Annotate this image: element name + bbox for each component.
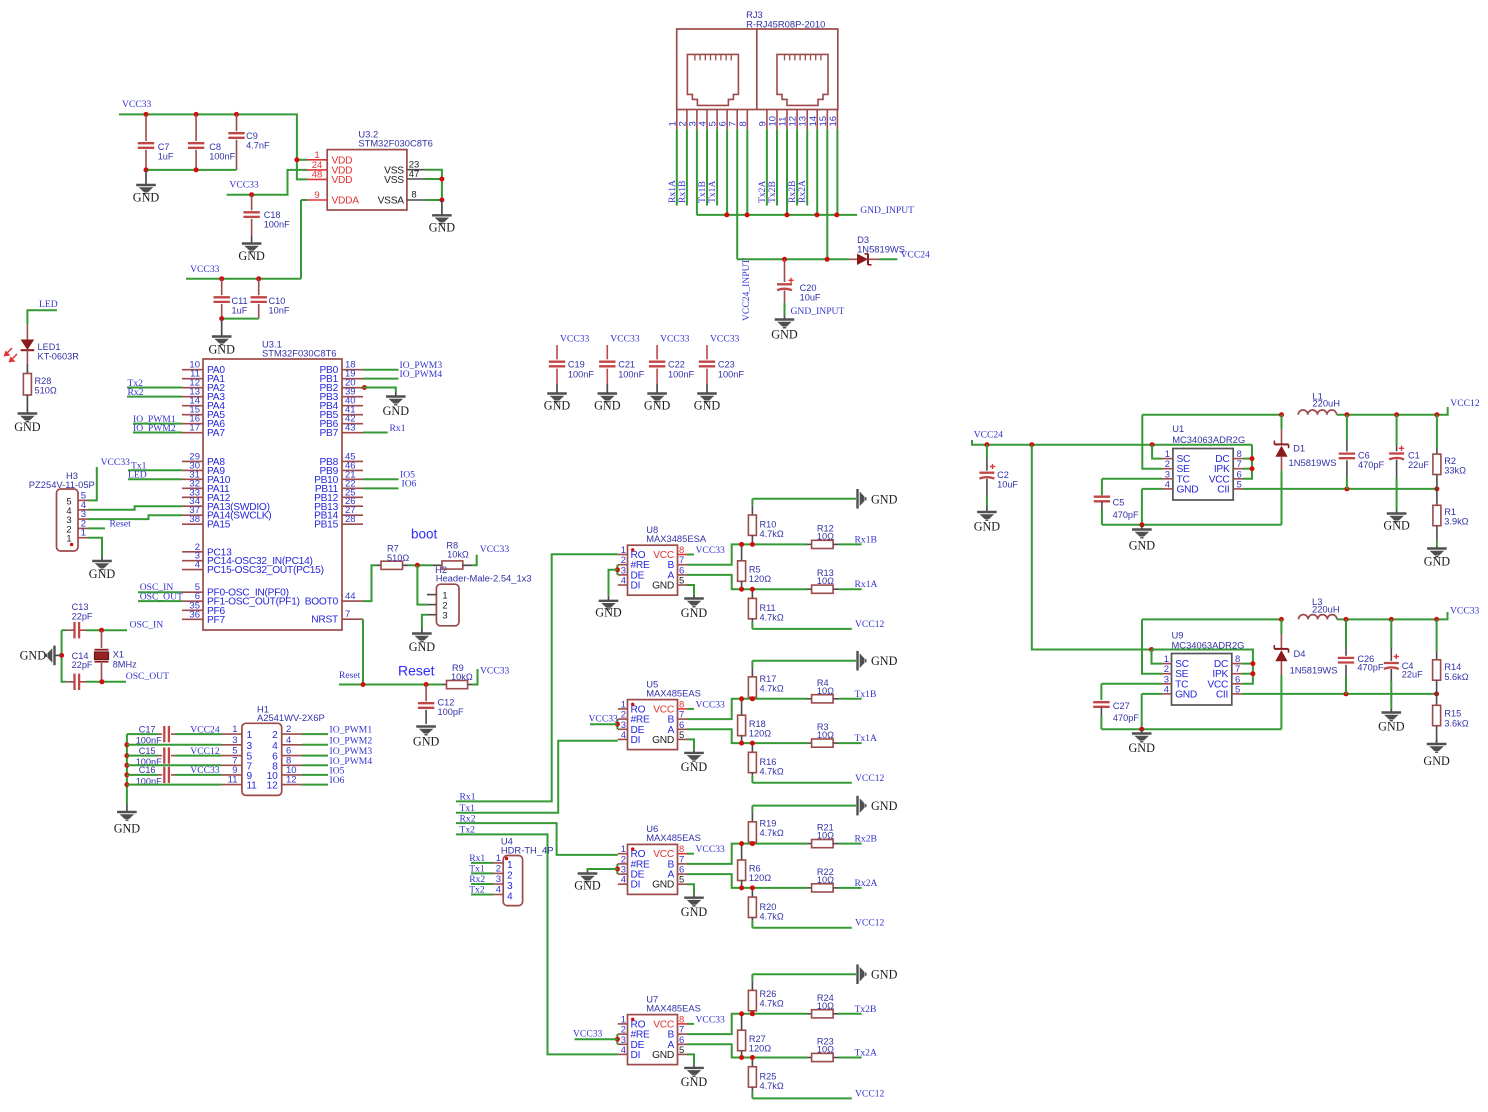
svg-text:4: 4 [496,885,501,896]
svg-text:GND: GND [652,880,674,891]
svg-text:4.7kΩ: 4.7kΩ [760,767,784,777]
svg-text:220uH: 220uH [1312,604,1340,615]
svg-text:VCC33: VCC33 [1450,606,1480,617]
svg-text:OSC_OUT: OSC_OUT [126,671,169,682]
svg-text:DI: DI [631,735,641,746]
svg-text:10Ω: 10Ω [817,686,834,696]
svg-text:VCC33: VCC33 [480,544,510,555]
svg-text:GND: GND [1128,741,1155,755]
svg-text:VSSA: VSSA [378,196,405,207]
svg-text:4.7kΩ: 4.7kΩ [760,683,784,693]
svg-text:IO6: IO6 [402,479,417,490]
svg-text:1N5819WS: 1N5819WS [857,243,905,254]
svg-text:12: 12 [267,781,278,792]
svg-text:3.6kΩ: 3.6kΩ [1444,718,1468,728]
svg-text:120Ω: 120Ω [749,728,771,738]
svg-text:VCC33: VCC33 [696,545,726,556]
svg-text:Tx1B: Tx1B [855,689,877,700]
svg-text:510Ω: 510Ω [35,386,57,396]
svg-text:HDR-TH_4P: HDR-TH_4P [501,845,554,856]
svg-text:R7: R7 [387,544,399,554]
svg-text:GND: GND [89,567,116,581]
svg-text:R14: R14 [1444,662,1461,672]
svg-text:KT-0603R: KT-0603R [38,352,80,362]
svg-text:Rx1B: Rx1B [855,534,877,545]
svg-text:R18: R18 [749,719,766,729]
svg-text:3: 3 [247,741,253,752]
svg-text:GND: GND [974,520,1001,534]
svg-text:VCC24: VCC24 [190,724,220,735]
svg-text:510Ω: 510Ω [387,553,409,563]
svg-text:GND: GND [771,328,798,342]
svg-text:GND: GND [544,399,571,413]
svg-text:3: 3 [442,610,447,621]
svg-text:GND: GND [652,1050,674,1061]
svg-text:11: 11 [247,781,258,792]
svg-text:10Ω: 10Ω [817,875,834,885]
svg-text:C17: C17 [139,724,156,734]
svg-text:VCC33: VCC33 [710,334,740,345]
svg-text:3.9kΩ: 3.9kΩ [1444,517,1468,527]
svg-text:GND: GND [681,760,708,774]
svg-text:10kΩ: 10kΩ [451,672,473,682]
svg-text:PA15: PA15 [207,520,231,531]
svg-text:C27: C27 [1113,701,1130,711]
svg-text:8MHz: 8MHz [113,660,137,670]
svg-text:VSS: VSS [384,175,404,186]
svg-text:GND: GND [409,640,436,654]
svg-text:GND: GND [595,606,622,620]
svg-text:9: 9 [314,190,319,201]
svg-text:Tx1A: Tx1A [855,733,877,744]
svg-text:D4: D4 [1294,648,1306,659]
svg-text:4: 4 [272,741,278,752]
svg-text:VCC12: VCC12 [855,773,885,784]
svg-text:38: 38 [189,514,200,525]
svg-text:X1: X1 [113,650,124,660]
svg-text:IO_PWM2: IO_PWM2 [330,735,373,746]
svg-text:28: 28 [345,514,356,525]
svg-text:C18: C18 [264,210,281,220]
svg-text:4: 4 [621,1045,626,1056]
svg-text:VCC33: VCC33 [573,1029,603,1040]
svg-text:R27: R27 [749,1034,766,1044]
svg-text:R1: R1 [1444,507,1456,517]
svg-text:Rx2: Rx2 [469,874,485,885]
svg-text:2: 2 [507,870,513,881]
svg-text:R26: R26 [760,989,777,999]
svg-text:Reset: Reset [110,519,132,530]
svg-text:4.7nF: 4.7nF [246,140,270,150]
svg-text:GND: GND [644,399,671,413]
svg-text:4: 4 [507,892,513,903]
svg-text:R-RJ45R08P-2010: R-RJ45R08P-2010 [746,19,825,30]
svg-text:8: 8 [738,121,749,126]
svg-text:120Ω: 120Ω [749,1043,771,1053]
svg-text:4.7kΩ: 4.7kΩ [760,828,784,838]
svg-text:22pF: 22pF [72,612,93,622]
svg-text:MAX3485ESA: MAX3485ESA [646,533,707,544]
svg-text:GND: GND [208,343,235,357]
svg-text:1uF: 1uF [158,152,174,162]
svg-text:4: 4 [1165,479,1170,490]
svg-text:4: 4 [621,576,626,587]
svg-text:C2: C2 [997,470,1009,480]
svg-text:10Ω: 10Ω [817,730,834,740]
svg-text:VCC33: VCC33 [190,765,220,776]
svg-text:VCC33: VCC33 [122,99,152,110]
svg-text:C1: C1 [1408,450,1420,460]
svg-text:VCC33: VCC33 [190,264,220,275]
svg-text:47: 47 [409,169,420,180]
svg-text:GND: GND [1423,754,1450,768]
svg-text:GND: GND [871,654,898,668]
svg-text:PF7: PF7 [207,615,226,626]
svg-text:8: 8 [411,190,416,201]
svg-text:VDDA: VDDA [332,196,360,207]
svg-text:Rx2A: Rx2A [855,878,878,889]
svg-text:VCC33: VCC33 [696,699,726,710]
svg-text:1: 1 [66,533,71,544]
svg-text:4.7kΩ: 4.7kΩ [760,998,784,1008]
svg-text:VCC33: VCC33 [610,334,640,345]
svg-text:D1: D1 [1293,443,1305,454]
svg-text:VCC33: VCC33 [696,844,726,855]
svg-text:VCC33: VCC33 [660,334,690,345]
svg-text:Reset: Reset [398,663,435,679]
svg-text:7: 7 [345,609,350,620]
svg-text:VCC24: VCC24 [974,430,1004,441]
svg-text:GND: GND [871,492,898,506]
svg-text:4: 4 [286,735,291,746]
svg-text:R16: R16 [760,757,777,767]
svg-text:R10: R10 [760,519,777,529]
svg-text:5: 5 [1235,684,1240,695]
svg-text:DI: DI [631,581,641,592]
svg-text:3: 3 [507,881,513,892]
svg-text:Tx1A: Tx1A [707,181,718,203]
svg-text:1: 1 [247,730,253,741]
svg-text:OSC_IN: OSC_IN [130,620,164,631]
svg-text:1: 1 [232,724,237,735]
svg-text:VCC24_INPUT: VCC24_INPUT [741,258,752,321]
svg-text:5: 5 [679,576,684,587]
svg-text:2: 2 [496,863,501,874]
svg-text:IO_PWM1: IO_PWM1 [330,725,373,736]
svg-text:NRST: NRST [311,615,338,626]
svg-text:100nF: 100nF [618,370,644,380]
svg-text:C11: C11 [232,296,248,306]
svg-text:VCC33: VCC33 [696,1014,726,1025]
svg-text:VCC12: VCC12 [190,746,220,757]
svg-text:Rx1B: Rx1B [677,181,688,203]
svg-text:VCC12: VCC12 [855,1088,885,1099]
svg-text:10uF: 10uF [800,293,821,303]
svg-text:100nF: 100nF [264,220,290,230]
svg-text:GND: GND [871,799,898,813]
svg-text:VCC33: VCC33 [560,334,590,345]
svg-text:IO_PWM4: IO_PWM4 [400,369,443,380]
svg-text:GND: GND [1175,689,1197,700]
svg-text:CII: CII [1217,484,1229,495]
svg-text:Tx2B: Tx2B [855,1004,877,1015]
svg-text:10Ω: 10Ω [817,1001,834,1011]
svg-text:R11: R11 [760,603,776,613]
svg-text:LED1: LED1 [38,342,61,352]
svg-text:5: 5 [1237,479,1242,490]
svg-text:100nF: 100nF [668,370,694,380]
svg-text:470pF: 470pF [1113,713,1139,723]
svg-text:C19: C19 [568,360,585,370]
svg-text:VDD: VDD [332,175,353,186]
svg-text:2: 2 [272,730,278,741]
svg-text:Rx2A: Rx2A [797,180,808,203]
svg-text:R20: R20 [760,902,777,912]
svg-text:PB15: PB15 [314,520,339,531]
svg-text:R19: R19 [760,819,777,829]
svg-text:100nF: 100nF [718,370,744,380]
svg-text:VCC33: VCC33 [229,180,259,191]
svg-text:U1: U1 [1172,423,1184,434]
svg-text:Rx1A: Rx1A [855,579,878,590]
svg-text:GND_INPUT: GND_INPUT [791,306,845,317]
svg-text:C21: C21 [618,360,635,370]
svg-text:5: 5 [679,730,684,741]
svg-text:1uF: 1uF [232,306,248,316]
svg-text:PA7: PA7 [207,428,225,439]
svg-text:48: 48 [312,169,323,180]
svg-text:R17: R17 [760,674,777,684]
svg-text:4: 4 [195,560,200,571]
svg-text:VCC33: VCC33 [101,457,131,468]
svg-text:44: 44 [345,591,356,602]
svg-text:C23: C23 [718,360,735,370]
svg-text:22uF: 22uF [1402,669,1423,679]
svg-text:10Ω: 10Ω [817,531,834,541]
svg-text:DI: DI [631,880,641,891]
svg-text:GND: GND [413,735,440,749]
svg-text:2: 2 [286,724,291,735]
svg-text:4: 4 [621,875,626,886]
svg-text:VCC33: VCC33 [480,666,510,677]
svg-text:MAX485EAS: MAX485EAS [646,832,701,843]
svg-text:GND: GND [652,735,674,746]
svg-text:GND: GND [681,1075,708,1089]
svg-text:GND: GND [652,581,674,592]
svg-text:GND: GND [574,878,601,892]
svg-text:GND: GND [114,822,141,836]
svg-text:PC15-OSC32_OUT(PC15): PC15-OSC32_OUT(PC15) [207,565,324,576]
svg-text:1: 1 [507,860,513,871]
svg-text:R2: R2 [1444,456,1456,466]
svg-text:100nF: 100nF [209,152,235,162]
svg-text:GND: GND [133,191,160,205]
svg-text:LED: LED [39,299,58,310]
svg-text:VCC33: VCC33 [589,714,619,725]
svg-text:10kΩ: 10kΩ [447,550,469,560]
svg-text:1: 1 [496,853,501,864]
svg-text:R6: R6 [749,864,761,874]
svg-text:4: 4 [1164,684,1169,695]
svg-text:10Ω: 10Ω [817,831,834,841]
svg-text:DI: DI [631,1050,641,1061]
svg-text:MAX485EAS: MAX485EAS [646,1002,701,1013]
svg-text:470pF: 470pF [1358,460,1384,470]
svg-text:3: 3 [496,874,501,885]
svg-text:5.6kΩ: 5.6kΩ [1444,672,1468,682]
svg-text:43: 43 [345,423,356,434]
svg-text:R25: R25 [760,1072,777,1082]
svg-text:VCC12: VCC12 [855,918,885,929]
svg-text:C16: C16 [139,765,156,775]
svg-text:R15: R15 [1444,709,1461,719]
svg-text:22pF: 22pF [72,660,93,670]
svg-text:1N5819WS: 1N5819WS [1290,665,1338,676]
svg-text:PB7: PB7 [319,428,338,439]
svg-text:MC34063ADR2G: MC34063ADR2G [1172,434,1245,445]
svg-text:GND: GND [238,249,265,263]
svg-text:Reset: Reset [339,670,361,681]
svg-text:GND: GND [383,404,410,418]
svg-text:11: 11 [228,775,238,786]
svg-text:VCC24: VCC24 [901,250,931,261]
svg-text:4.7kΩ: 4.7kΩ [760,529,784,539]
svg-text:Rx2B: Rx2B [855,834,877,845]
svg-text:470pF: 470pF [1113,510,1139,520]
svg-text:22uF: 22uF [1408,460,1429,470]
svg-text:Rx1: Rx1 [390,423,406,434]
svg-text:10uF: 10uF [997,480,1018,490]
svg-text:Tx1: Tx1 [469,864,485,875]
svg-text:C20: C20 [800,283,817,293]
svg-text:4.7kΩ: 4.7kΩ [760,911,784,921]
svg-text:10Ω: 10Ω [817,576,834,586]
svg-text:C13: C13 [72,602,89,612]
svg-text:5: 5 [679,875,684,886]
svg-text:12: 12 [286,775,297,786]
svg-text:R5: R5 [749,564,761,574]
svg-text:220uH: 220uH [1312,398,1340,409]
svg-text:GND: GND [14,420,41,434]
svg-text:GND: GND [1383,519,1410,533]
svg-text:STM32F030C8T6: STM32F030C8T6 [262,348,337,359]
svg-text:1N5819WS: 1N5819WS [1289,457,1337,468]
svg-text:GND: GND [1177,484,1199,495]
svg-text:Tx2: Tx2 [469,885,485,896]
svg-text:120Ω: 120Ω [749,873,771,883]
svg-text:GND: GND [20,649,47,663]
svg-text:C8: C8 [209,142,221,152]
svg-text:4.7kΩ: 4.7kΩ [760,1081,784,1091]
svg-text:4.7kΩ: 4.7kΩ [760,613,784,623]
svg-text:GND: GND [429,220,456,234]
svg-text:Tx2B: Tx2B [767,181,778,203]
svg-text:3: 3 [232,735,237,746]
svg-text:GND: GND [681,606,708,620]
svg-text:VCC12: VCC12 [1450,398,1480,409]
svg-text:120Ω: 120Ω [749,574,771,584]
svg-text:100pF: 100pF [438,707,464,717]
svg-text:17: 17 [189,423,200,434]
svg-text:GND: GND [871,968,898,982]
svg-text:GND: GND [1129,539,1156,553]
svg-text:C10: C10 [269,296,286,306]
svg-text:C5: C5 [1113,498,1125,508]
svg-text:GND: GND [1424,555,1451,569]
svg-text:GND: GND [594,399,621,413]
svg-text:10nF: 10nF [269,306,290,316]
svg-text:Rx1: Rx1 [469,853,485,864]
svg-text:470pF: 470pF [1357,663,1383,673]
svg-text:STM32F030C8T6: STM32F030C8T6 [358,137,433,148]
svg-text:33kΩ: 33kΩ [1444,466,1466,476]
svg-text:GND: GND [694,399,721,413]
svg-text:R28: R28 [35,376,52,386]
svg-text:4: 4 [621,730,626,741]
svg-text:C22: C22 [668,360,685,370]
svg-text:VCC12: VCC12 [855,619,885,630]
svg-text:36: 36 [189,609,200,620]
svg-text:10Ω: 10Ω [817,1045,834,1055]
svg-text:C15: C15 [139,746,156,756]
svg-text:16: 16 [828,116,839,127]
svg-text:GND: GND [681,905,708,919]
svg-text:BOOT0: BOOT0 [305,597,339,608]
svg-text:C6: C6 [1358,450,1370,460]
svg-text:Tx2A: Tx2A [855,1048,877,1059]
svg-text:100nF: 100nF [568,370,594,380]
svg-text:MAX485EAS: MAX485EAS [646,687,701,698]
svg-text:A2541WV-2X6P: A2541WV-2X6P [257,712,325,723]
svg-text:GND_INPUT: GND_INPUT [860,205,914,216]
svg-text:C12: C12 [438,698,455,708]
svg-text:boot: boot [411,527,438,542]
svg-text:1: 1 [81,528,86,539]
svg-text:5: 5 [679,1045,684,1056]
svg-text:CII: CII [1216,689,1228,700]
svg-text:Header-Male-2.54_1x3: Header-Male-2.54_1x3 [436,573,532,584]
svg-text:IO6: IO6 [330,775,345,786]
svg-text:C7: C7 [158,142,170,152]
svg-text:GND: GND [1378,720,1405,734]
